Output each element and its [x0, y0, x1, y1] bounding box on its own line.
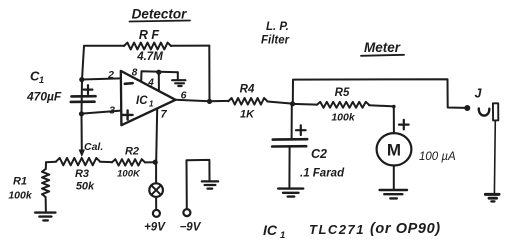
- svg-text:Filter: Filter: [261, 35, 290, 47]
- svg-text:1: 1: [39, 75, 44, 85]
- svg-text:R1: R1: [13, 176, 27, 188]
- svg-text:8: 8: [132, 68, 138, 79]
- svg-text:50k: 50k: [76, 181, 95, 193]
- svg-text:C2: C2: [311, 147, 327, 161]
- svg-text:4: 4: [147, 78, 154, 89]
- svg-text:IC: IC: [263, 222, 278, 238]
- svg-text:7: 7: [160, 109, 167, 121]
- svg-text:TLC271: TLC271: [309, 222, 365, 237]
- svg-text:J: J: [475, 87, 483, 101]
- svg-text:R F: R F: [139, 28, 160, 42]
- svg-text:2: 2: [107, 69, 114, 81]
- svg-text:R4: R4: [240, 84, 255, 96]
- svg-text:R3: R3: [75, 168, 89, 180]
- svg-text:+9V: +9V: [144, 222, 166, 234]
- svg-text:6: 6: [181, 90, 187, 102]
- svg-text:M: M: [387, 141, 401, 160]
- svg-text:4.7M: 4.7M: [136, 51, 163, 63]
- svg-text:R5: R5: [335, 87, 350, 99]
- svg-text:R2: R2: [125, 146, 139, 158]
- svg-text:1: 1: [149, 100, 154, 109]
- svg-text:1K: 1K: [240, 109, 255, 121]
- svg-text:100K: 100K: [117, 169, 141, 180]
- svg-text:.1 Farad: .1 Farad: [300, 168, 345, 180]
- svg-text:100k: 100k: [331, 112, 356, 124]
- svg-text:(or OP90): (or OP90): [370, 221, 441, 237]
- svg-text:100 µA: 100 µA: [419, 151, 456, 163]
- svg-text:Cal.: Cal.: [84, 141, 103, 153]
- svg-text:Detector: Detector: [132, 7, 188, 22]
- svg-text:IC: IC: [136, 95, 148, 107]
- svg-text:Meter: Meter: [364, 40, 401, 55]
- svg-text:3: 3: [109, 105, 115, 117]
- svg-text:1: 1: [280, 230, 285, 241]
- svg-text:L. P.: L. P.: [266, 21, 289, 33]
- svg-text:100k: 100k: [8, 190, 33, 202]
- svg-text:−9V: −9V: [180, 222, 202, 234]
- svg-text:470µF: 470µF: [26, 90, 62, 104]
